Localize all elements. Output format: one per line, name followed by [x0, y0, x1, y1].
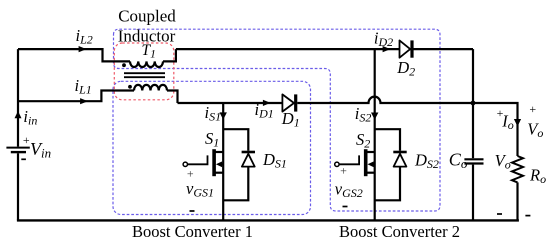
wire: DS1 branch bottom jumper [223, 167, 248, 201]
svg-text:Boost Converter 2: Boost Converter 2 [339, 222, 460, 241]
svg-text:+: + [340, 164, 347, 178]
boost converter 2 boundary box (blue dashed L-shape) [114, 29, 441, 211]
polarity dot of L2 [122, 63, 126, 67]
arrow iin (up) [15, 111, 22, 118]
arrow iL1 [80, 98, 88, 104]
wire: iL1 wire from input to winding L1 [18, 91, 134, 102]
wire: battery negative to bottom rail [17, 153, 19, 220]
wire: L2 to top rail [163, 49, 176, 61]
wire: DS1 branch top jumper [223, 129, 248, 151]
arrow iS1 (down) [220, 112, 227, 119]
battery Vin [6, 148, 29, 153]
svg-text:Coupled: Coupled [118, 6, 176, 25]
wire: output right vertical from top rail to node [472, 49, 474, 103]
transistor Q S2 (MOSFET) [335, 149, 375, 176]
diode D1 [282, 94, 295, 111]
resistor Ro [512, 156, 523, 182]
boost converter 1 boundary box (blue dashed rounded rect) [113, 81, 311, 214]
wire: DS2 branch top jumper [375, 129, 400, 151]
arrow iL2 [79, 46, 87, 52]
wire: top rail to output corner [176, 48, 473, 50]
wire: iL2 top wire from input to winding L2 [18, 49, 130, 61]
polarity dot of L1 [128, 85, 132, 89]
wire: bottom ground rail [17, 219, 519, 221]
arrow iD2 [383, 46, 391, 52]
diode D2 [400, 40, 413, 57]
wire: Ro to bottom rail [516, 182, 518, 220]
label - of inner Vo [497, 213, 502, 215]
wire: mid rail from L1 to D1 anode [178, 102, 283, 104]
transformer T1 core [124, 73, 165, 77]
wire: D1 cathode to output node, with hop over S2 branch [297, 97, 473, 103]
wire: node to Ro branch [473, 103, 518, 156]
label - of vGS1 [190, 210, 195, 212]
wire: L1 down to mid rail [167, 91, 178, 104]
arrow iD1 [263, 100, 271, 106]
arrow iS2 (down) [371, 113, 378, 120]
wire: DS2 branch bottom jumper [375, 167, 400, 201]
inductor L1 (bottom winding of T1) [134, 85, 167, 91]
arrow Io (down) [514, 119, 521, 127]
wire: S1 drain branch vertical [222, 103, 224, 220]
coupled inductor boundary box (red dashed rounded rect) [114, 43, 174, 100]
wire: left input vertical (Vin + to node) [17, 49, 19, 147]
transistor Q S1 (MOSFET) [183, 149, 223, 176]
label - of outer Vo [525, 215, 530, 217]
diode DS1 (body diode) [242, 152, 255, 167]
inductor L2 (top winding of T1) [130, 61, 163, 67]
wire: S2 drain branch vertical from top rail [374, 49, 376, 220]
svg-text:+: + [529, 102, 536, 116]
label Coupled Inductor [118, 6, 177, 45]
svg-text:Boost Converter 1: Boost Converter 1 [132, 222, 253, 241]
wire: node to Co [472, 103, 474, 158]
svg-text:+: + [23, 133, 30, 147]
label - of Vin [21, 158, 26, 160]
wire: Co to bottom rail [472, 165, 474, 221]
capacitor Co [464, 159, 483, 163]
diode DS2 (body diode) [393, 152, 406, 167]
node: output junction dot [471, 101, 476, 106]
label - of vGS2 [343, 206, 348, 208]
